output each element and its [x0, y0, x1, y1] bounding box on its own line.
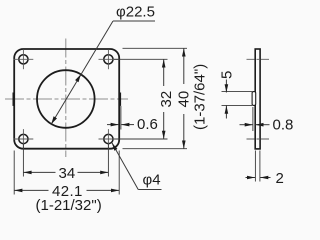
svg-text:(1-37/64"): (1-37/64") [192, 64, 209, 130]
svg-text:34: 34 [59, 165, 76, 182]
42.1 dimension [14, 151, 119, 195]
40 dimension [123, 48, 188, 148]
svg-text:0.8: 0.8 [273, 116, 294, 133]
side view boss [252, 92, 256, 106]
corner hole top-left [14, 49, 34, 69]
left tab [13, 93, 15, 106]
5 dimension [222, 80, 253, 119]
φ22.5 leader line [51, 21, 155, 124]
side view bottom hole center line [247, 138, 270, 140]
svg-text:40: 40 [176, 91, 193, 108]
0.6 dimension [107, 106, 134, 130]
flange plate outline [14, 49, 119, 149]
svg-text:32: 32 [158, 91, 175, 108]
svg-text:φ4: φ4 [143, 171, 161, 188]
svg-text:0.6: 0.6 [137, 116, 158, 133]
corner hole bottom-right [99, 129, 119, 149]
side view top hole center line [247, 58, 270, 60]
svg-text:5: 5 [219, 71, 236, 79]
vertical center line [65, 39, 67, 158]
svg-text:(1-21/32"): (1-21/32") [36, 197, 102, 214]
side view plate [255, 49, 260, 149]
svg-text:φ22.5: φ22.5 [116, 4, 155, 21]
svg-text:2: 2 [276, 170, 284, 187]
2 dimension [246, 151, 271, 182]
corner hole top-right [99, 49, 119, 69]
32 dimension [114, 59, 168, 139]
center hole (φ22.5) [37, 70, 95, 128]
horizontal center line [5, 98, 128, 100]
0.8 dimension [240, 107, 270, 131]
right tab [119, 93, 122, 106]
φ4 leader [112, 143, 162, 190]
34 dimension [23, 144, 108, 177]
corner hole bottom-left [14, 129, 34, 149]
